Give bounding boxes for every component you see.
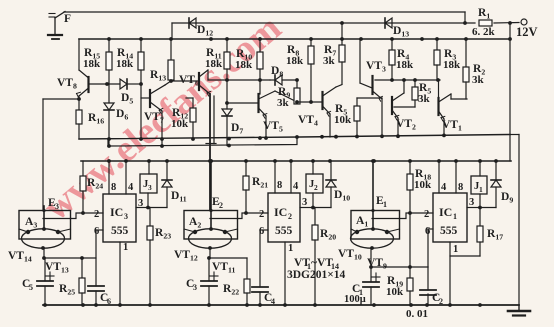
svg-text:18k: 18k [83, 58, 101, 70]
svg-text:10k: 10k [414, 179, 432, 191]
svg-text:4: 4 [128, 182, 134, 193]
svg-text:4: 4 [271, 297, 275, 306]
svg-text:D13: D13 [393, 25, 409, 39]
svg-text:D9: D9 [501, 191, 513, 205]
svg-text:18k: 18k [205, 58, 223, 70]
svg-text:6. 2k: 6. 2k [472, 26, 496, 38]
svg-text:10k: 10k [386, 286, 404, 298]
svg-text:3k: 3k [323, 55, 336, 67]
svg-text:4: 4 [293, 181, 299, 192]
svg-text:1: 1 [123, 242, 128, 253]
svg-text:10k: 10k [171, 118, 189, 130]
svg-text:D11: D11 [171, 190, 187, 204]
svg-text:VT3: VT3 [366, 60, 386, 74]
svg-text:100μ: 100μ [344, 294, 366, 305]
svg-text:F: F [64, 13, 71, 25]
svg-text:8: 8 [277, 180, 282, 191]
svg-text:VT11: VT11 [212, 261, 235, 275]
svg-text:10k: 10k [334, 114, 352, 126]
svg-text:2: 2 [259, 209, 264, 220]
svg-text:18k: 18k [286, 55, 304, 67]
svg-text:18k: 18k [235, 59, 253, 71]
svg-text:0. 01: 0. 01 [406, 308, 428, 320]
svg-text:2: 2 [219, 201, 223, 210]
svg-text:R1: R1 [478, 7, 490, 21]
svg-text:R17: R17 [487, 228, 503, 242]
svg-text:3: 3 [193, 283, 197, 292]
svg-text:2: 2 [94, 209, 99, 220]
svg-text:6: 6 [107, 297, 111, 306]
svg-text:IC: IC [439, 205, 452, 219]
svg-text:3: 3 [302, 197, 307, 208]
svg-text:A3: A3 [25, 216, 37, 230]
svg-text:3: 3 [138, 198, 143, 209]
svg-text:D6: D6 [116, 108, 128, 122]
svg-text:IC: IC [274, 205, 287, 219]
svg-text:1: 1 [453, 212, 457, 221]
svg-text:3k: 3k [418, 93, 431, 105]
svg-text:A1: A1 [356, 215, 368, 229]
svg-text:3: 3 [469, 197, 474, 208]
svg-text:R23: R23 [155, 227, 171, 241]
svg-text:R16: R16 [88, 112, 104, 126]
svg-text:VT4: VT4 [298, 114, 318, 128]
svg-text:18k: 18k [396, 59, 414, 71]
svg-text:3: 3 [124, 212, 128, 221]
svg-text:2: 2 [439, 297, 443, 306]
svg-text:2: 2 [314, 183, 318, 192]
svg-text:VT2: VT2 [396, 118, 416, 132]
svg-text:VT13: VT13 [45, 261, 69, 275]
svg-text:VT12: VT12 [174, 249, 198, 263]
svg-text:1: 1 [453, 244, 458, 255]
svg-text:IC: IC [110, 205, 123, 219]
svg-text:VT5: VT5 [263, 120, 283, 134]
svg-text:4: 4 [441, 182, 447, 193]
svg-text:R22: R22 [223, 283, 239, 297]
svg-text:1: 1 [479, 185, 483, 194]
svg-text:3k: 3k [277, 97, 290, 109]
svg-text:R20: R20 [320, 228, 336, 242]
svg-text:6: 6 [94, 226, 99, 237]
svg-text:3DG201×14: 3DG201×14 [287, 269, 346, 281]
svg-text:18k: 18k [116, 58, 134, 70]
svg-text:D8: D8 [271, 65, 283, 79]
svg-text:555: 555 [440, 225, 458, 237]
svg-text:D12: D12 [197, 24, 213, 38]
svg-text:8: 8 [111, 182, 116, 193]
svg-text:555: 555 [275, 225, 293, 237]
svg-text:A2: A2 [189, 216, 201, 230]
svg-text:D5: D5 [121, 92, 133, 106]
svg-text:5: 5 [29, 283, 33, 292]
svg-text:VT1: VT1 [442, 119, 462, 133]
svg-text:VT8: VT8 [57, 77, 77, 91]
svg-text:VT14: VT14 [8, 250, 32, 264]
svg-text:D10: D10 [334, 189, 350, 203]
svg-text:1: 1 [288, 243, 293, 254]
svg-text:3k: 3k [472, 74, 485, 86]
svg-text:555: 555 [111, 225, 129, 237]
svg-text:3: 3 [55, 202, 59, 211]
svg-text:R13: R13 [150, 69, 166, 83]
svg-text:12V: 12V [516, 25, 538, 39]
svg-text:2: 2 [288, 212, 292, 221]
svg-text:VT10: VT10 [338, 248, 362, 262]
svg-text:~VT: ~VT [311, 257, 333, 269]
svg-text:3: 3 [148, 183, 152, 192]
svg-text:18k: 18k [443, 59, 461, 71]
svg-text:8: 8 [458, 182, 463, 193]
svg-text:D7: D7 [231, 122, 243, 136]
svg-text:1: 1 [383, 200, 387, 209]
svg-text:2: 2 [424, 209, 429, 220]
svg-text:R21: R21 [252, 176, 268, 190]
svg-text:R25: R25 [59, 283, 75, 297]
